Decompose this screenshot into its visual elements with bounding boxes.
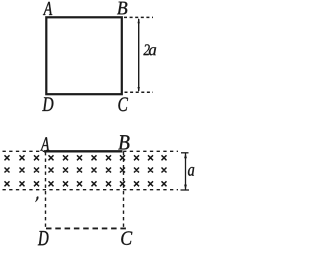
- label D (lower figure): [38, 231, 49, 245]
- label B (top figure): [117, 2, 127, 15]
- side DC dashed (lower figure): [46, 227, 126, 229]
- dimension a bracket (lower figure): [181, 153, 190, 190]
- field region bottom boundary (dashed): [3, 189, 179, 191]
- row 1 of crosses: [5, 155, 167, 160]
- label C (top figure): [118, 97, 128, 111]
- label A (lower figure): [40, 137, 49, 150]
- wire AB (solid, lower figure): [44, 150, 123, 152]
- square ABCD (top figure): [46, 17, 122, 94]
- label B (lower figure): [118, 135, 129, 149]
- extension dashed line from B: [124, 16, 153, 18]
- dimension line 2a (vertical with arrows): [138, 18, 140, 92]
- stray comma mark: [35, 196, 38, 202]
- label C (lower figure): [121, 231, 132, 245]
- side BC dashed (lower figure): [123, 152, 125, 229]
- row 3 of crosses: [5, 181, 167, 186]
- row 2 of crosses: [5, 168, 167, 173]
- value label a: [188, 167, 194, 176]
- side AD dashed (lower figure): [45, 152, 47, 229]
- field region top boundary (dashed, lower figure): [3, 150, 179, 152]
- field cross grid (B into page): [5, 155, 167, 186]
- value label 2a: [143, 44, 156, 55]
- label D (top figure): [42, 97, 53, 111]
- label A (top figure): [43, 2, 52, 15]
- extension dashed line from C: [125, 91, 154, 93]
